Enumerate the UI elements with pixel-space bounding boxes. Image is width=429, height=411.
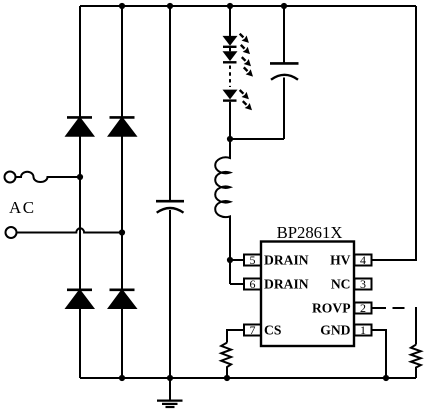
wire second bridge column [121,6,123,378]
wire bottom rail [80,377,416,379]
node drain junction [227,257,233,263]
LED D6 [223,90,238,102]
LED string D5 [223,36,238,64]
pin 7 box [244,325,261,336]
ground [157,378,183,407]
pin 3 box [355,279,372,290]
AC terminal lower [6,227,17,238]
svg-text:4: 4 [360,253,366,267]
svg-text:AC: AC [9,198,36,217]
wire right vertical (HV to top rail) [372,6,416,260]
svg-text:ROVP: ROVP [312,301,351,316]
node LED bottom junction [227,136,233,142]
AC terminal upper [5,172,16,183]
svg-text:7: 7 [250,323,256,337]
IC U1 BP2861X body [261,242,354,347]
resistor R2 [411,345,421,378]
node AC lower / column 2 [119,229,125,235]
svg-text:3: 3 [360,277,366,291]
pin 4 box [355,255,372,266]
wire left bridge column [79,6,81,378]
node top rail / column 2 [119,3,125,9]
wire input capacitor column upper lead [169,6,171,201]
wire LED bottom node to output capacitor [230,138,284,140]
svg-text:BP2861X: BP2861X [277,223,343,242]
capacitor C1 curved plate [157,208,184,213]
node bottom rail / R1 [224,375,230,381]
LED emission arrows group 2 [242,57,253,77]
node bottom rail / ground [167,375,173,381]
wire AC lower with hop over left column [17,228,122,232]
wire ROVP pin 2 dashed link [372,307,405,309]
diode D4 (lower right) [109,290,136,308]
svg-text:CS: CS [264,323,281,338]
wire input capacitor column lower lead [169,210,171,378]
node bottom rail / GND wire [383,375,389,381]
inductor L1 [215,139,230,284]
wire LED column top lead [229,6,231,36]
wire LED column bottom lead [229,102,231,139]
svg-text:GND: GND [320,323,350,338]
wire dotted LED continuation [229,66,231,88]
resistor R1 [221,343,231,378]
fuse F1 [16,172,80,182]
wire top rail [80,5,416,7]
capacitor C2 plate top [270,62,299,65]
svg-text:DRAIN: DRAIN [264,253,309,268]
node top rail / LED column [227,3,233,9]
wire ROVP vertical to resistor R2 [415,307,417,345]
wire drain pin 5 connection [230,259,244,261]
wire CS pin 7 to resistor R1 [227,330,244,343]
wire output capacitor upper lead [283,6,285,63]
node top rail / C2 [281,3,287,9]
pin 2 box [355,303,372,314]
wire drain pin 6 connection [230,283,244,285]
wire output capacitor lower lead [283,78,285,140]
svg-text:1: 1 [360,323,366,337]
svg-text:HV: HV [330,253,351,268]
pin 6 box [244,279,261,290]
capacitor C2 curved plate [271,75,298,80]
pin 5 box [244,255,261,266]
wire GND pin 1 to bottom rail [372,330,387,378]
svg-text:5: 5 [250,253,256,267]
node top rail / C1 [167,3,173,9]
svg-text:DRAIN: DRAIN [264,277,309,292]
node AC upper / column 1 [77,174,83,180]
capacitor C1 plate top [156,200,184,203]
LED emission arrows group 1 [240,34,250,54]
svg-text:6: 6 [250,277,256,291]
diode D2 (upper right) [109,117,136,135]
diode D3 (lower left) [67,290,94,308]
diode D1 (upper left) [67,117,94,135]
svg-text:2: 2 [360,301,366,315]
svg-text:NC: NC [331,277,351,292]
node bottom rail / column 2 [119,375,125,381]
LED emission arrows group 3 [240,90,252,110]
pin 1 box [355,325,372,336]
